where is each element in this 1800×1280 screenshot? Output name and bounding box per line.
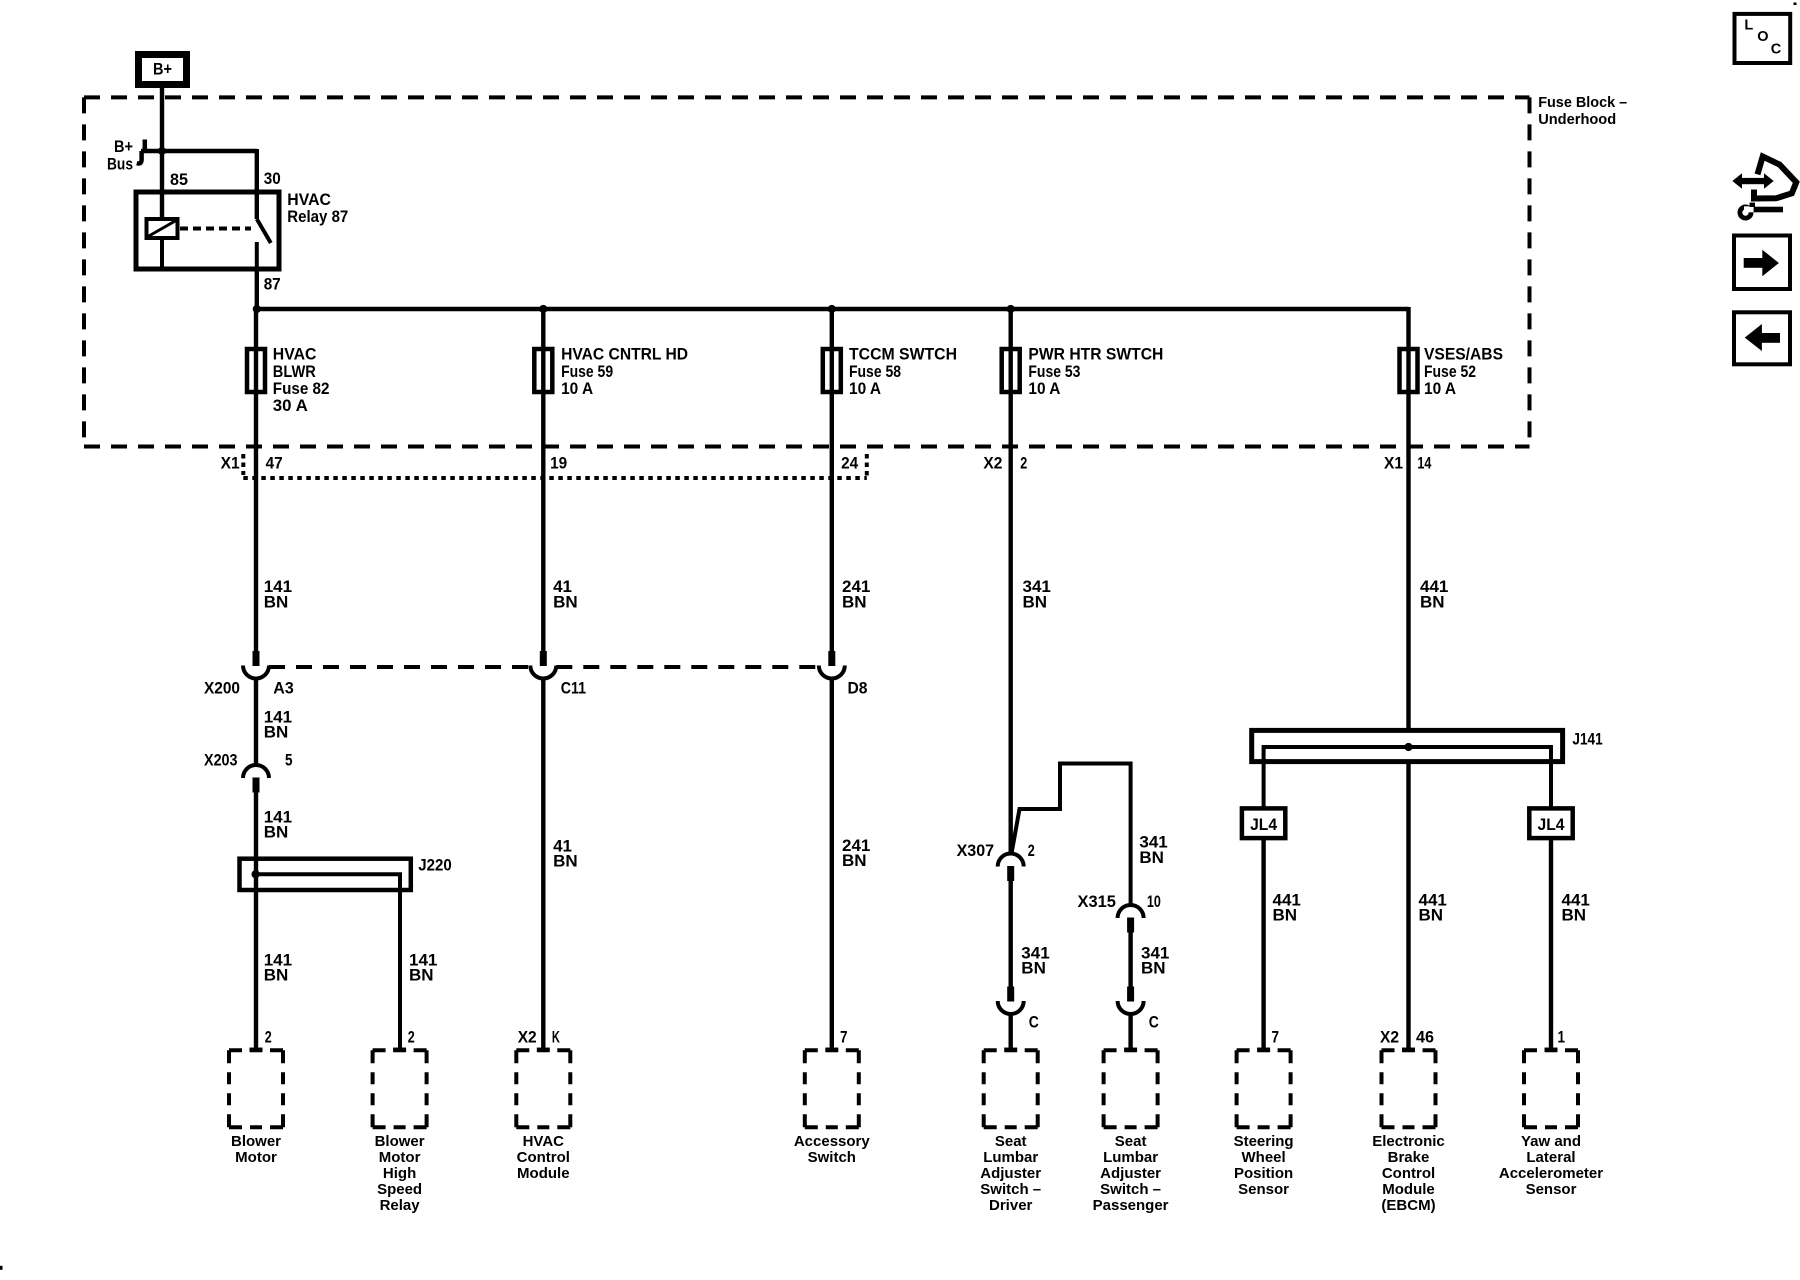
wire fuse 82 output 141 BN — [254, 392, 258, 651]
svg-text:87: 87 — [264, 274, 281, 293]
junction J220 — [252, 870, 260, 878]
terminal at blower motor — [250, 1048, 263, 1053]
junction bus at fuse 82 — [253, 305, 261, 313]
svg-text:Fuse 53: Fuse 53 — [1028, 362, 1080, 381]
relay pin 87 stub inside box — [255, 242, 259, 269]
svg-text:O: O — [1757, 29, 1768, 45]
wire D8 to accessory switch 241 BN — [830, 679, 834, 1050]
wire fuse 58 output 241 BN — [830, 392, 834, 651]
relay control dashed link — [180, 227, 251, 231]
wire B+ to relay pin 85 — [160, 85, 164, 220]
svg-text:BN: BN — [1141, 959, 1166, 978]
junction B+ bus — [158, 147, 166, 155]
service icon wrench — [1738, 203, 1784, 221]
svg-text:Accessory: Accessory — [794, 1133, 871, 1150]
svg-text:(EBCM): (EBCM) — [1381, 1197, 1435, 1214]
svg-text:2: 2 — [265, 1027, 272, 1046]
svg-text:B+: B+ — [114, 137, 133, 156]
svg-text:JL4: JL4 — [1538, 815, 1565, 834]
service icon freehand loop — [1754, 157, 1796, 199]
svg-text:10 A: 10 A — [1424, 379, 1456, 398]
component box accessory switch — [805, 1050, 859, 1127]
connector C passenger — [1118, 987, 1144, 1015]
forward arrow box — [1734, 236, 1790, 290]
svg-text:Bus: Bus — [107, 154, 133, 173]
splice J141 tap line — [1264, 747, 1551, 808]
terminal at yaw sensor — [1545, 1048, 1558, 1053]
svg-text:HVAC: HVAC — [523, 1133, 565, 1150]
svg-text:X315: X315 — [1078, 892, 1116, 911]
wire to seat driver box — [1009, 1014, 1013, 1049]
component box yaw sensor — [1524, 1050, 1578, 1127]
svg-text:Adjuster: Adjuster — [980, 1165, 1041, 1182]
svg-text:5: 5 — [285, 750, 293, 769]
dashed harness line X200 row — [269, 665, 530, 669]
svg-text:Control: Control — [1382, 1165, 1435, 1182]
svg-text:BN: BN — [1562, 906, 1587, 925]
svg-text:Control: Control — [517, 1149, 570, 1166]
svg-text:PWR HTR SWTCH: PWR HTR SWTCH — [1028, 345, 1163, 364]
B+ battery feed box — [139, 55, 187, 85]
svg-text:Relay: Relay — [380, 1197, 421, 1214]
junction J141 — [1404, 743, 1412, 751]
svg-text:Speed: Speed — [377, 1181, 422, 1198]
svg-text:Accelerometer: Accelerometer — [1499, 1165, 1603, 1182]
fusible link JL4 right — [1529, 808, 1572, 838]
svg-text:D8: D8 — [848, 678, 868, 697]
terminal at seat driver switch — [1004, 1048, 1017, 1053]
svg-text:Sensor: Sensor — [1526, 1181, 1577, 1198]
svg-text:J220: J220 — [418, 856, 451, 875]
svg-text:L: L — [1744, 17, 1753, 33]
svg-text:10 A: 10 A — [1028, 379, 1060, 398]
svg-text:X307: X307 — [957, 841, 995, 860]
svg-text:X200: X200 — [204, 678, 240, 697]
forward arrow — [1744, 250, 1779, 276]
svg-text:Fuse 52: Fuse 52 — [1424, 362, 1476, 381]
svg-text:Module: Module — [1382, 1181, 1435, 1198]
component box blower motor high speed relay — [373, 1050, 427, 1127]
svg-text:BN: BN — [553, 852, 578, 871]
svg-text:Seat: Seat — [1115, 1133, 1147, 1150]
svg-text:BN: BN — [409, 966, 434, 985]
svg-text:10: 10 — [1147, 892, 1161, 911]
svg-text:X2: X2 — [1380, 1027, 1399, 1046]
terminal at steering wheel position sensor — [1257, 1048, 1270, 1053]
svg-text:Relay 87: Relay 87 — [287, 207, 348, 226]
connector X200 pin A3 — [243, 651, 269, 679]
wire JL4 to yaw sensor 441 BN — [1549, 838, 1553, 1049]
relay coil lower lead — [160, 238, 164, 269]
junction bus at fuse 59 — [539, 305, 547, 313]
svg-text:BN: BN — [842, 592, 867, 611]
LOC navigation box — [1735, 14, 1791, 63]
svg-text:Steering: Steering — [1234, 1133, 1294, 1150]
svg-text:C11: C11 — [561, 678, 586, 697]
svg-text:X2: X2 — [983, 453, 1002, 472]
svg-text:14: 14 — [1417, 453, 1431, 472]
svg-text:BN: BN — [1139, 848, 1164, 867]
svg-text:BN: BN — [264, 823, 289, 842]
fuse PWR HTR SWTCH Fuse 53 10A — [1002, 349, 1020, 392]
svg-text:30: 30 — [264, 169, 281, 188]
svg-text:1: 1 — [1558, 1027, 1566, 1046]
wire C11 to HVAC control module 41 BN — [541, 679, 545, 1050]
component box steering wheel position sensor — [1237, 1050, 1291, 1127]
back arrow — [1745, 324, 1780, 351]
svg-text:C: C — [1771, 41, 1782, 57]
svg-text:BN: BN — [1420, 592, 1445, 611]
svg-text:Module: Module — [517, 1165, 570, 1182]
svg-text:30 A: 30 A — [273, 396, 308, 415]
connector X315 pin 10 — [1118, 905, 1144, 933]
connector D8 — [819, 651, 845, 679]
svg-text:24: 24 — [841, 453, 858, 472]
svg-text:BN: BN — [1419, 906, 1444, 925]
splice pack J141 box — [1252, 730, 1563, 761]
svg-text:2: 2 — [1028, 841, 1035, 860]
svg-text:Passenger: Passenger — [1093, 1197, 1169, 1214]
svg-text:Driver: Driver — [989, 1197, 1033, 1214]
B+ Bus stub terminal — [143, 140, 148, 152]
wire bus to fuse 82 — [254, 309, 258, 392]
fuse HVAC CNTRL HD Fuse 59 10A — [534, 349, 552, 392]
svg-text:Fuse 82: Fuse 82 — [273, 379, 330, 398]
svg-text:A3: A3 — [273, 678, 293, 697]
svg-text:BN: BN — [553, 592, 578, 611]
svg-text:X1: X1 — [221, 453, 240, 472]
svg-text:J141: J141 — [1572, 729, 1602, 748]
svg-text:Fuse Block –: Fuse Block – — [1538, 94, 1627, 111]
svg-text:BN: BN — [1273, 906, 1298, 925]
wire bus to fuse 58 — [830, 309, 834, 392]
wire X200 to X203 141 BN — [254, 679, 258, 766]
svg-text:TCCM SWTCH: TCCM SWTCH — [849, 345, 957, 364]
svg-text:B+: B+ — [153, 59, 172, 78]
junction bus at fuse 53 — [1007, 305, 1015, 313]
connector C driver — [998, 987, 1024, 1015]
relay HVAC Relay 87 box — [136, 192, 279, 269]
connector C11 — [530, 651, 556, 679]
component box blower motor — [229, 1050, 283, 1127]
component box HVAC control module — [516, 1050, 570, 1127]
component box EBCM — [1382, 1050, 1436, 1127]
svg-text:BN: BN — [264, 723, 289, 742]
svg-text:Blower: Blower — [375, 1133, 425, 1150]
terminal at EBCM — [1402, 1048, 1415, 1053]
wire to seat passenger box — [1128, 1014, 1132, 1049]
svg-text:K: K — [552, 1027, 560, 1046]
relay switch arm — [257, 219, 271, 243]
wire bus to fuse 59 — [541, 309, 545, 392]
svg-text:Wheel: Wheel — [1242, 1149, 1286, 1166]
svg-text:Electronic: Electronic — [1372, 1133, 1445, 1150]
wire X307 to seat driver switch — [1009, 881, 1013, 987]
svg-text:X203: X203 — [204, 750, 238, 769]
svg-text:Fuse 59: Fuse 59 — [561, 362, 613, 381]
svg-text:Switch –: Switch – — [1100, 1181, 1161, 1198]
dotted connector boundary line — [243, 476, 867, 480]
svg-text:HVAC: HVAC — [273, 345, 317, 364]
svg-text:85: 85 — [170, 170, 188, 189]
stray mark bottom left — [0, 1266, 3, 1270]
junction bus at fuse 58 — [828, 305, 836, 313]
wire 441 BN to EBCM — [1406, 761, 1410, 1049]
terminal at HVAC control module — [537, 1048, 550, 1053]
svg-text:Position: Position — [1234, 1165, 1293, 1182]
bus wire (fuse feed) — [256, 307, 1409, 311]
svg-text:2: 2 — [1020, 453, 1027, 472]
dotted stub left — [241, 454, 245, 475]
fuse HVAC BLWR Fuse 82 30A — [247, 349, 265, 392]
svg-text:JL4: JL4 — [1250, 815, 1277, 834]
back arrow box — [1734, 312, 1790, 364]
wire branch to seat passenger 341 BN — [1012, 764, 1131, 906]
svg-text:HVAC: HVAC — [287, 190, 331, 209]
component box seat driver switch — [984, 1050, 1038, 1127]
svg-text:Adjuster: Adjuster — [1100, 1165, 1161, 1182]
svg-text:Brake: Brake — [1388, 1149, 1430, 1166]
wire fuse 53 output 341 BN — [1009, 392, 1013, 854]
svg-text:Motor: Motor — [379, 1149, 421, 1166]
relay coil — [147, 219, 178, 238]
svg-text:Yaw and: Yaw and — [1521, 1133, 1581, 1150]
svg-text:7: 7 — [1272, 1027, 1280, 1046]
svg-text:10 A: 10 A — [561, 379, 593, 398]
svg-text:Sensor: Sensor — [1238, 1181, 1289, 1198]
svg-text:X1: X1 — [1384, 453, 1403, 472]
svg-text:BN: BN — [842, 851, 867, 870]
component box seat passenger switch — [1104, 1050, 1158, 1127]
wire pin 87 to bus — [255, 269, 259, 309]
svg-text:X2: X2 — [518, 1027, 537, 1046]
svg-text:Switch –: Switch – — [980, 1181, 1041, 1198]
svg-text:47: 47 — [266, 453, 283, 472]
splice J220 tap — [256, 874, 400, 1049]
svg-text:Fuse 58: Fuse 58 — [849, 362, 901, 381]
stray mark top right — [1794, 3, 1797, 6]
svg-text:High: High — [383, 1165, 416, 1182]
svg-text:Switch: Switch — [808, 1149, 856, 1166]
fuse TCCM SWTCH Fuse 58 10A — [823, 349, 841, 392]
svg-text:BLWR: BLWR — [273, 362, 316, 381]
wire pin 30 drop — [255, 149, 259, 219]
terminal at accessory switch — [825, 1048, 838, 1053]
connector X203 pin 5 — [243, 765, 269, 793]
svg-text:BN: BN — [1021, 959, 1046, 978]
svg-text:C: C — [1149, 1013, 1159, 1032]
dotted stub right — [865, 454, 869, 478]
svg-text:Motor: Motor — [235, 1149, 277, 1166]
fuse VSES/ABS Fuse 52 10A — [1400, 349, 1418, 392]
svg-text:Lumbar: Lumbar — [1103, 1149, 1158, 1166]
wire bus to fuse 53 — [1009, 309, 1013, 392]
terminal at seat passenger switch — [1124, 1048, 1137, 1053]
terminal at blower motor high speed relay — [393, 1048, 406, 1053]
svg-text:Blower: Blower — [231, 1133, 281, 1150]
svg-text:Lumbar: Lumbar — [983, 1149, 1038, 1166]
svg-text:10 A: 10 A — [849, 379, 881, 398]
wire JL4 to steering sensor 441 BN — [1261, 838, 1265, 1049]
wire fuse 59 output 41 BN — [541, 392, 545, 651]
svg-text:BN: BN — [264, 592, 289, 611]
svg-text:HVAC CNTRL HD: HVAC CNTRL HD — [561, 345, 688, 364]
wire X315 to seat passenger switch — [1128, 933, 1132, 988]
fusible link JL4 left — [1242, 808, 1285, 838]
service icon double arrow — [1732, 173, 1773, 188]
svg-text:7: 7 — [840, 1027, 848, 1046]
wire X203 to blower motor — [254, 793, 258, 1050]
wire bus to fuse 52 — [1406, 307, 1410, 392]
svg-text:Lateral: Lateral — [1526, 1149, 1575, 1166]
wire fuse 52 output 441 BN — [1406, 392, 1410, 730]
svg-text:VSES/ABS: VSES/ABS — [1424, 345, 1503, 364]
svg-text:Seat: Seat — [995, 1133, 1027, 1150]
wire B+ bus to pin 30 — [141, 149, 257, 153]
svg-text:2: 2 — [408, 1027, 415, 1046]
svg-text:19: 19 — [550, 453, 567, 472]
svg-text:46: 46 — [1416, 1027, 1434, 1046]
Fuse Block - Underhood dashed boundary — [84, 97, 1530, 446]
splice pack J220 box — [240, 859, 411, 890]
svg-text:C: C — [1029, 1013, 1039, 1032]
svg-text:Underhood: Underhood — [1538, 111, 1616, 128]
svg-text:BN: BN — [264, 966, 289, 985]
connector X307 pin 2 — [998, 854, 1024, 882]
svg-text:BN: BN — [1023, 592, 1048, 611]
